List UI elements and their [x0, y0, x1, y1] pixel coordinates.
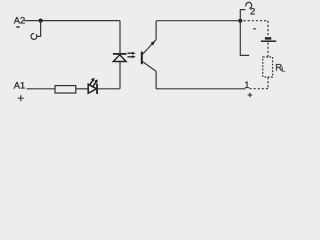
- svg-text:A1: A1: [14, 79, 25, 90]
- transistor emitter diagonal with arrow: [142, 40, 156, 55]
- dashed wire battery to RL: [267, 43, 269, 58]
- load resistor RL dashed box: [263, 57, 273, 77]
- dashed wire node2 to external branch: [244, 20, 269, 22]
- LED cathode bar: [96, 84, 98, 94]
- wire A2 terminal drop: [36, 21, 40, 37]
- minus polarity at A2: [16, 26, 19, 28]
- wire down to opto LED: [119, 21, 121, 54]
- wire top-right rail: [156, 20, 240, 22]
- wire opto LED to bottom rail: [119, 62, 121, 89]
- LED emission arrow right: [93, 82, 97, 87]
- wire bottom-right rail: [156, 88, 245, 90]
- wire collector down: [155, 71, 157, 89]
- dashed wire RL down: [267, 77, 269, 89]
- wire top-left (A2 to optocoupler): [24, 20, 120, 22]
- opto coupling arrow lower: [127, 56, 132, 58]
- svg-text:1: 1: [244, 80, 249, 91]
- battery long bar: [261, 40, 276, 42]
- svg-text:A2: A2: [14, 14, 25, 25]
- wire terminal 2 up: [240, 10, 245, 21]
- svg-text:L: L: [281, 67, 285, 74]
- transistor Q1 base bar: [141, 52, 143, 65]
- minus polarity at terminal 2: [253, 28, 256, 30]
- LED indicator triangle: [88, 84, 96, 93]
- wire resistor to LED: [76, 88, 88, 90]
- node A2 junction: [39, 19, 43, 23]
- plus polarity at terminal 1: [248, 93, 252, 97]
- dashed wire down to battery: [267, 21, 269, 37]
- svg-text:2: 2: [250, 6, 255, 17]
- terminal clamp hook 2: [246, 2, 252, 8]
- battery short bar: [265, 37, 271, 40]
- terminal clamp hook A2: [31, 33, 37, 39]
- wire stub L below node 2: [240, 21, 249, 56]
- opto coupling arrow upper: [127, 52, 132, 54]
- plus polarity at A1: [18, 95, 24, 101]
- resistor R1: [55, 86, 76, 93]
- LED emission arrow left: [89, 80, 93, 85]
- node terminal 2 junction: [238, 19, 242, 23]
- optocoupler LED triangle: [113, 55, 126, 62]
- wire LED to opto node: [98, 88, 120, 90]
- transistor collector diagonal: [142, 61, 156, 71]
- dashed wire to terminal 1: [249, 88, 268, 90]
- optocoupler LED cathode bar: [113, 53, 127, 55]
- wire A1 to resistor: [27, 88, 56, 90]
- wire emitter up: [155, 21, 157, 40]
